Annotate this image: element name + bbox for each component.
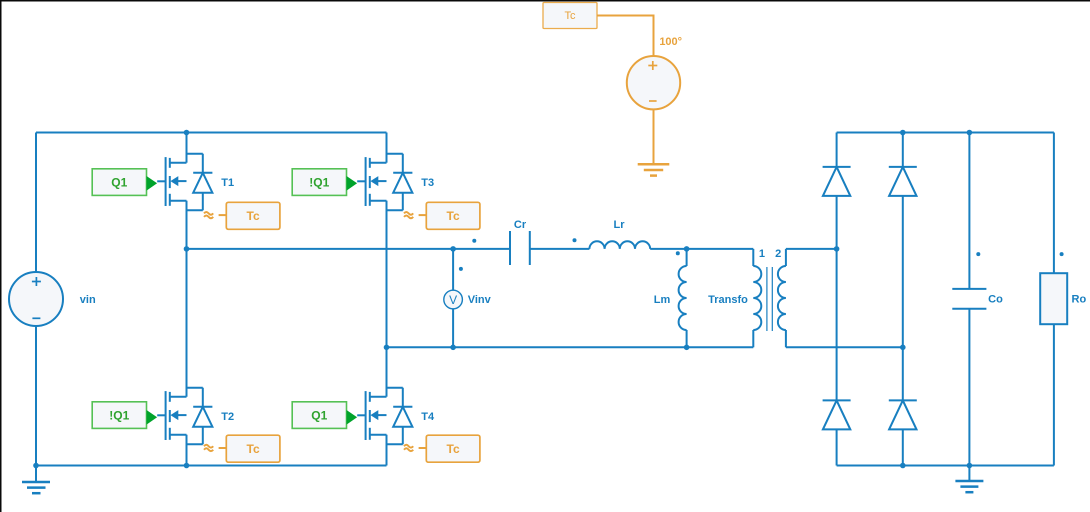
thermal stub (T4) xyxy=(419,447,427,449)
resistor Ro xyxy=(1040,273,1067,324)
diode D2 (upper right) xyxy=(889,167,917,196)
wire secondary top to rectifier xyxy=(786,248,837,250)
wire D4 branch lower xyxy=(902,429,904,465)
wire Ro branch upper xyxy=(1053,133,1055,274)
svg-text:Tc: Tc xyxy=(447,442,460,456)
ground (left, blue) xyxy=(22,466,50,494)
wire secondary bottom to rectifier xyxy=(786,346,903,348)
wire node A to Cr xyxy=(187,248,511,250)
wire Tc to temperature source xyxy=(597,16,654,57)
svg-text:!Q1: !Q1 xyxy=(109,409,129,423)
wire Lm top stub xyxy=(686,249,688,266)
gate arrow (T1) xyxy=(147,176,158,191)
thermal stub (T3) xyxy=(419,214,427,216)
ground (right, blue) xyxy=(955,466,983,493)
wire D2 branch middle xyxy=(902,196,904,401)
svg-text:Tc: Tc xyxy=(565,10,577,22)
diode D4 (lower right) xyxy=(889,400,917,429)
thermal stub (T2) xyxy=(219,447,227,449)
gate arrow (T2) xyxy=(147,410,158,425)
wire left rail upper (top rail to vin +) xyxy=(35,133,37,273)
thermal block Tc (T4) xyxy=(426,435,480,462)
svg-text:T3: T3 xyxy=(421,177,434,189)
thermal stub (T1) xyxy=(219,214,227,216)
thermal block Tc (top) xyxy=(543,3,597,29)
svg-text:Cr: Cr xyxy=(514,219,527,231)
wire rectifier top rail xyxy=(837,132,1054,134)
diode D3 (lower left) xyxy=(823,400,851,429)
diode D1 (upper left) xyxy=(823,167,851,196)
thermal port squiggle (T3) xyxy=(404,212,413,218)
node junction bottom rail ground xyxy=(967,463,973,469)
svg-text:Tc: Tc xyxy=(247,209,260,223)
probe dot Ro xyxy=(1060,252,1064,256)
wire top rail xyxy=(36,132,387,134)
transformer core xyxy=(767,267,772,331)
svg-text:T2: T2 xyxy=(221,411,234,423)
frame border left xyxy=(0,0,2,512)
wire T1 drain xyxy=(186,133,188,163)
gate driver block Q1 (T1) xyxy=(92,169,146,196)
probe dot above voltmeter xyxy=(459,267,463,271)
gate driver block !Q1 (T2) xyxy=(92,402,146,429)
wire D3 branch lower xyxy=(836,429,838,465)
svg-text:100°: 100° xyxy=(659,36,682,48)
wire D1 branch upper xyxy=(836,133,838,167)
wire T3 drain xyxy=(386,133,388,163)
transistor T3 (MOSFET with body diode) xyxy=(357,154,412,211)
wire T2 drain xyxy=(186,249,188,397)
ground (orange) xyxy=(638,164,670,175)
wire T2 source to bottom rail xyxy=(186,435,188,466)
temperature source 100° xyxy=(627,56,680,109)
svg-text:Lm: Lm xyxy=(654,294,671,306)
svg-text:vin: vin xyxy=(80,294,96,306)
transistor T1 (MOSFET with body diode) xyxy=(157,154,212,211)
transistor T4 (MOSFET with body diode) xyxy=(357,388,412,445)
wire T1 source to node A xyxy=(186,201,188,249)
svg-text:Tc: Tc xyxy=(447,209,460,223)
voltmeter Vinv xyxy=(444,290,463,309)
wire Lm bottom stub xyxy=(686,330,688,347)
transformer secondary winding xyxy=(778,249,786,347)
wire Vinv top branch xyxy=(452,249,454,290)
svg-text:Q1: Q1 xyxy=(311,409,327,423)
svg-text:!Q1: !Q1 xyxy=(309,176,329,190)
probe dot left of Cr xyxy=(472,239,476,243)
node junction top rail / T1 xyxy=(184,130,190,136)
node junction secondary bottom / D2 branch xyxy=(900,345,906,351)
wire temperature source to ground xyxy=(653,109,655,164)
svg-text:2: 2 xyxy=(775,248,781,260)
thermal block Tc (T2) xyxy=(226,435,280,462)
wire Lr to transformer xyxy=(650,248,753,250)
capacitor Co xyxy=(952,289,986,309)
wire Co branch upper xyxy=(968,133,970,289)
wire Vinv bottom branch xyxy=(452,309,454,348)
node junction top rail Co xyxy=(967,130,973,136)
svg-text:T4: T4 xyxy=(421,411,435,423)
thermal block Tc (T1) xyxy=(226,202,280,229)
probe dot Lm xyxy=(676,251,680,255)
node junction vin/ground xyxy=(33,463,39,469)
svg-text:Tc: Tc xyxy=(247,442,260,456)
svg-text:T1: T1 xyxy=(221,177,234,189)
gate driver block !Q1 (T3) xyxy=(292,169,346,196)
node junction bottom rail D2 xyxy=(900,463,906,469)
node junction top rail D2 xyxy=(900,130,906,136)
svg-text:Transfo: Transfo xyxy=(708,294,748,306)
node B junction xyxy=(384,345,390,351)
gate arrow (T4) xyxy=(347,410,358,425)
voltage source vin xyxy=(9,272,63,326)
svg-text:Ro: Ro xyxy=(1072,294,1087,306)
probe dot left of Lr xyxy=(573,238,577,242)
thermal port squiggle (T4) xyxy=(404,445,413,451)
inductor Lm xyxy=(679,266,687,330)
wire D2 branch upper xyxy=(902,133,904,167)
wire D1 branch middle xyxy=(836,196,838,401)
node junction secondary top / D1 branch xyxy=(834,246,840,252)
svg-text:Q1: Q1 xyxy=(111,176,127,190)
node A junction xyxy=(184,246,190,252)
frame border top xyxy=(0,0,1090,2)
node junction T2 / bottom rail xyxy=(184,463,190,469)
node junction Lm top xyxy=(684,246,690,252)
gate arrow (T3) xyxy=(347,176,358,191)
wire rectifier bottom rail xyxy=(837,465,1054,467)
thermal block Tc (T3) xyxy=(426,202,480,229)
node junction Vinv bottom xyxy=(450,345,456,351)
thermal port squiggle (T2) xyxy=(204,445,213,451)
wire bottom rail xyxy=(36,465,387,467)
svg-text:Co: Co xyxy=(988,294,1003,306)
svg-text:Vinv: Vinv xyxy=(468,294,492,306)
wire Cr to Lr xyxy=(530,248,590,250)
transistor T2 (MOSFET with body diode) xyxy=(157,388,212,445)
probe dot Co xyxy=(976,252,980,256)
wire left rail lower (vin - to bottom rail) xyxy=(35,326,37,466)
wire T3 source to node B xyxy=(386,201,388,347)
svg-text:V: V xyxy=(449,293,457,307)
wire Co branch lower xyxy=(968,309,970,466)
wire T4 drain xyxy=(386,347,388,396)
inductor Lr xyxy=(589,241,650,249)
capacitor Cr xyxy=(510,231,530,265)
svg-text:1: 1 xyxy=(759,248,765,260)
gate driver block Q1 (T4) xyxy=(292,402,346,429)
thermal port squiggle (T1) xyxy=(204,212,213,218)
wire T4 source to bottom rail xyxy=(386,435,388,466)
transformer Transfo primary winding xyxy=(753,249,761,347)
node junction Lm bottom xyxy=(684,345,690,351)
node junction Vinv top xyxy=(450,246,456,252)
wire Ro branch lower xyxy=(1053,324,1055,465)
svg-text:Lr: Lr xyxy=(614,219,626,231)
wire node B rail to transformer bottom xyxy=(387,346,754,348)
